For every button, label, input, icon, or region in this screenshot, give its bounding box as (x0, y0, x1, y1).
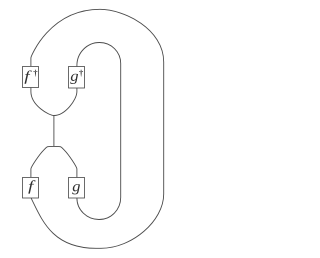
box g-dagger U2 (69, 67, 85, 89)
box f U3 (23, 178, 39, 199)
wire cup joining f-dagger and g-dagger outputs (31, 87, 77, 115)
label g (72, 184, 80, 194)
wire outer loop (f-dagger top, over right side, to f bottom) (31, 9, 164, 248)
box f-dagger U1 (23, 67, 39, 88)
label f of f-dagger (25, 70, 32, 83)
label f (28, 180, 35, 193)
box g U4 (69, 178, 85, 199)
label dagger of g-dagger (79, 70, 83, 77)
label dagger of f-dagger (34, 70, 38, 77)
wire inner loop (g-dagger top, down inner right side, to g bottom) (77, 43, 121, 220)
label g of g-dagger (70, 74, 78, 84)
wire middle vertical (53, 116, 55, 147)
wire cap feeding f and g inputs (31, 146, 77, 177)
